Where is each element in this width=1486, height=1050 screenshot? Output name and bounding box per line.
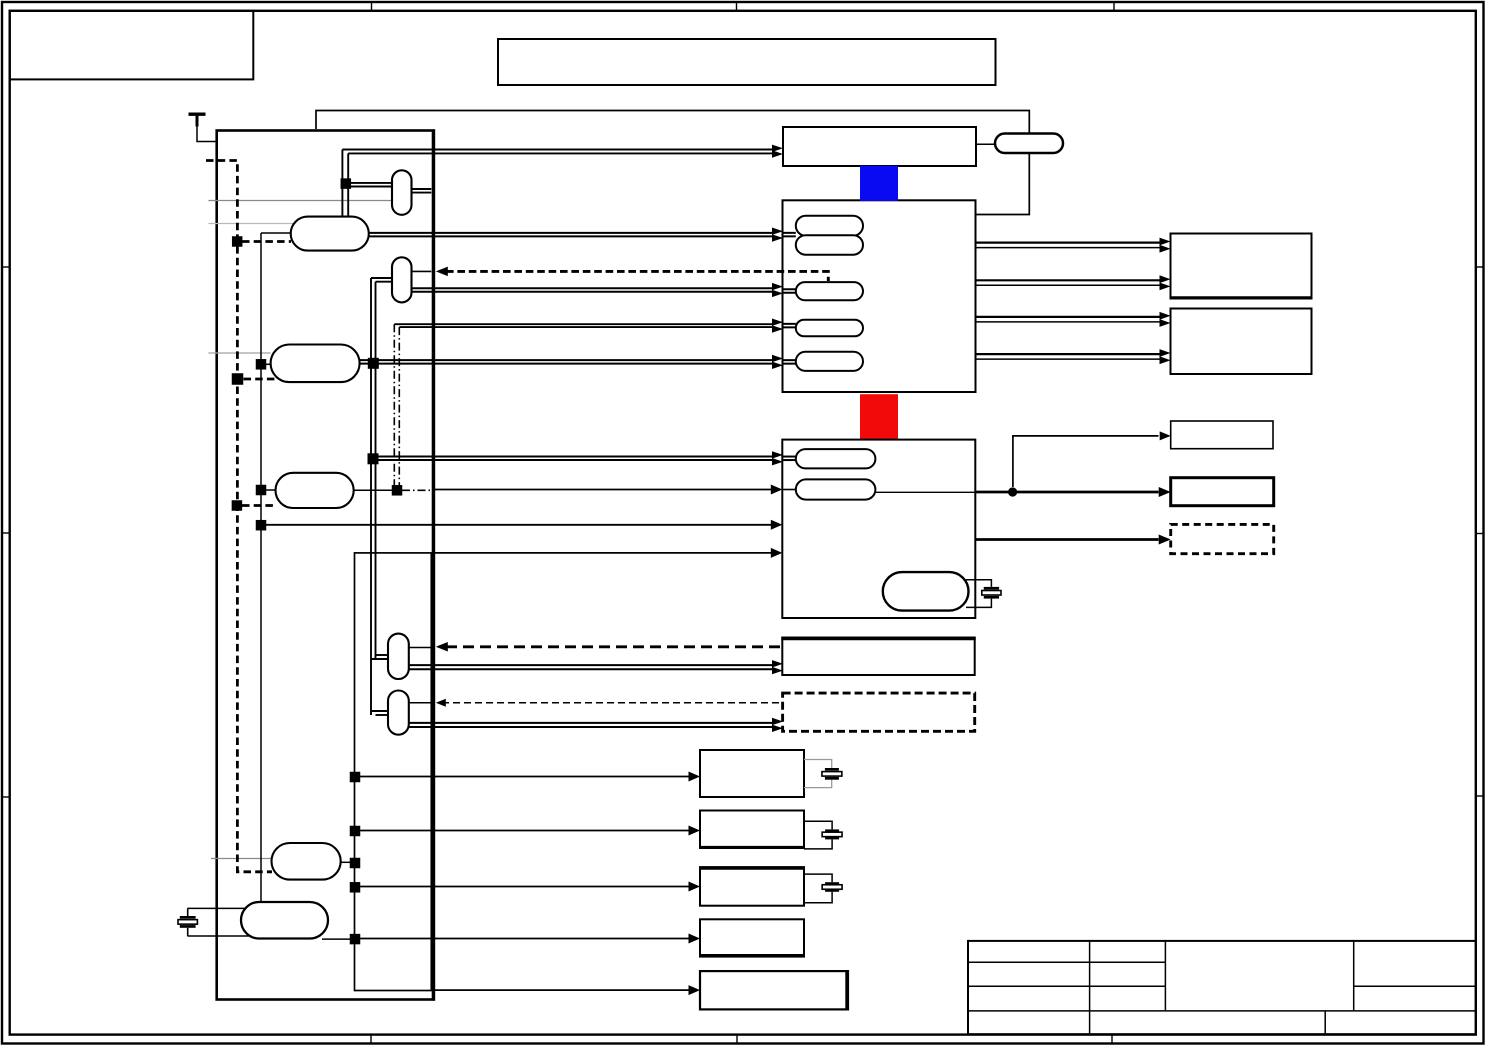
junction dot xyxy=(1008,487,1017,496)
nc stub gray to P1 xyxy=(208,200,392,202)
power bar symbol VCC xyxy=(189,114,206,127)
wire U2 to K1 xyxy=(976,143,995,145)
port K1 pill xyxy=(995,134,1063,154)
port P9 oscillator xyxy=(241,902,328,939)
port P8 xyxy=(272,843,341,880)
dash-dot net pillD to S7 xyxy=(393,324,395,490)
wire branch S8 to P5 xyxy=(261,489,277,491)
block B2 xyxy=(700,811,804,849)
port P3 xyxy=(392,257,412,302)
title area box top-left xyxy=(10,11,254,80)
dashed return box4 to P6 xyxy=(446,645,782,648)
port P7 xyxy=(388,691,409,735)
bus U3 out3 to R2 xyxy=(976,316,1160,318)
port P1 xyxy=(392,170,412,215)
block X5 dashed xyxy=(783,693,975,731)
bus P2 to U3 RX xyxy=(369,232,773,234)
port P2 xyxy=(291,217,369,251)
dashed branch to P4 xyxy=(244,378,276,381)
border zone ticks right xyxy=(1476,267,1484,796)
junction S1 xyxy=(341,178,352,189)
port U3 pillC xyxy=(796,282,863,300)
stub P7 to edge xyxy=(409,702,432,704)
dashed branch to P2 xyxy=(242,240,291,243)
stub U3 row1 xyxy=(783,232,796,234)
stub U3 row3 xyxy=(783,323,796,325)
block U1 main controller xyxy=(217,131,433,1000)
block U2 top box xyxy=(783,127,976,166)
junction S9 xyxy=(256,520,267,531)
marker red xyxy=(860,394,898,439)
junction S5 xyxy=(368,358,379,369)
bus P6 to box4 xyxy=(409,664,773,666)
wire branch S3 to P4 xyxy=(261,363,272,365)
block B1 xyxy=(700,750,804,797)
bus P4 to U3 xyxy=(360,359,773,361)
port U4 pillH xyxy=(883,572,969,611)
block U4 xyxy=(782,440,975,618)
stub U3 row2 xyxy=(783,288,796,290)
port U3 pillE xyxy=(796,352,863,371)
title block rows xyxy=(968,962,1476,1011)
block R3 xyxy=(1171,421,1273,449)
block U1 crystal sub-block xyxy=(355,553,432,991)
junction S6 + branch to U4 xyxy=(373,456,773,458)
title block frame xyxy=(968,941,1476,1034)
block X4 xyxy=(782,638,974,676)
stub P3 to edge xyxy=(412,270,432,272)
stub P6 to edge xyxy=(409,647,432,649)
wire S9 to U4 input 3 xyxy=(261,524,771,526)
wire junction up to R3 xyxy=(1013,436,1159,487)
block B4 xyxy=(700,919,804,956)
wire B3 crystal loop xyxy=(804,874,832,882)
crystal Y1 at P9 xyxy=(187,907,245,909)
port U3 pillB xyxy=(796,235,863,255)
bus vertical left line to P7 xyxy=(370,278,372,715)
border zone ticks top xyxy=(372,2,1115,11)
wire pillG out xyxy=(875,491,975,493)
nc stub gray to P2 xyxy=(208,223,293,225)
junction S7 xyxy=(392,485,403,496)
bus U3 out2 to R1 xyxy=(976,279,1160,281)
junction S12 + wire to B2 xyxy=(355,830,689,832)
crystal Y5 at B3 xyxy=(831,881,833,883)
junction S3 xyxy=(256,359,267,370)
bus P3 to U3 xyxy=(412,287,773,289)
nc stub gray to P4 xyxy=(208,352,270,354)
wire P5 to S7 xyxy=(354,489,392,491)
port P5 xyxy=(276,473,354,508)
stub P1 right to edge xyxy=(412,188,432,190)
wire P2 left net vertical xyxy=(260,233,262,902)
border zone ticks bottom xyxy=(371,1035,1112,1044)
bus P1 net to U2 xyxy=(342,145,783,217)
wire S7 net to U4 input 2 xyxy=(435,489,771,491)
port U4 pillF xyxy=(796,449,876,468)
wire B2 crystal loop xyxy=(804,821,832,829)
wire feedback U1 top to U3 right xyxy=(316,111,1029,215)
block R2 xyxy=(1171,309,1312,375)
port U3 pillD xyxy=(796,320,863,337)
dash-dot S7 to edge xyxy=(402,489,433,491)
block B3 xyxy=(700,867,804,906)
stub U4 row2 xyxy=(782,489,796,491)
dashed return wire pillC top to P3 xyxy=(446,271,828,281)
bus P3 left to vertical bus xyxy=(371,277,392,279)
stub U4 row1 xyxy=(782,456,796,458)
crystal Y3 at B1 xyxy=(831,767,833,769)
port P4 xyxy=(271,345,360,383)
bus P7 to box5 xyxy=(409,722,773,724)
wire U4 out2 to R5 xyxy=(975,538,1158,541)
wire power to U1 xyxy=(197,127,216,142)
dashed net main vertical xyxy=(206,161,272,872)
port U3 pillA xyxy=(796,216,863,236)
block B5 xyxy=(700,971,848,1009)
junction S4 dashed-P4 xyxy=(232,373,244,385)
junction S2 dashed-P2 xyxy=(232,236,243,247)
block R5 dashed xyxy=(1171,524,1274,553)
port P6 xyxy=(388,634,409,679)
crystal Y4 at B2 xyxy=(831,828,833,830)
bus U3 out4 to R2 xyxy=(976,353,1160,355)
title block columns xyxy=(1090,941,1354,1034)
bus vertical right line to P6 xyxy=(375,282,377,659)
dashed branch to P5 xyxy=(242,504,277,507)
bus U3 out1 to R1 xyxy=(976,242,1160,244)
junction S11 + wire to B1 xyxy=(355,776,689,778)
junction S15 + wire to B4 xyxy=(322,938,355,940)
wire subblock top to U4 input 4 xyxy=(433,552,771,554)
block R4 xyxy=(1171,478,1274,506)
port U4 pillG xyxy=(796,479,876,499)
junction S8 xyxy=(256,485,267,496)
wire U4 out to junction and R4 xyxy=(975,491,1158,494)
wire B1 crystal loop gray xyxy=(804,760,832,769)
junction S10 dashed-P5 xyxy=(232,500,243,511)
junction S14 + wire to B3 xyxy=(355,886,689,888)
border zone ticks left xyxy=(2,267,10,797)
junction S13 + wire P8 xyxy=(341,861,355,863)
nc stub gray to P8 xyxy=(211,858,272,860)
title banner box top-center xyxy=(498,39,996,85)
dashed return box5 to P7 xyxy=(442,702,783,704)
stub U3 row4 xyxy=(783,359,796,361)
block R1 xyxy=(1171,234,1312,299)
block U3 xyxy=(783,200,976,392)
crystal Y2 at pillH xyxy=(966,580,991,587)
wire subblock bottom to B5 xyxy=(433,989,689,991)
marker blue xyxy=(860,166,898,201)
